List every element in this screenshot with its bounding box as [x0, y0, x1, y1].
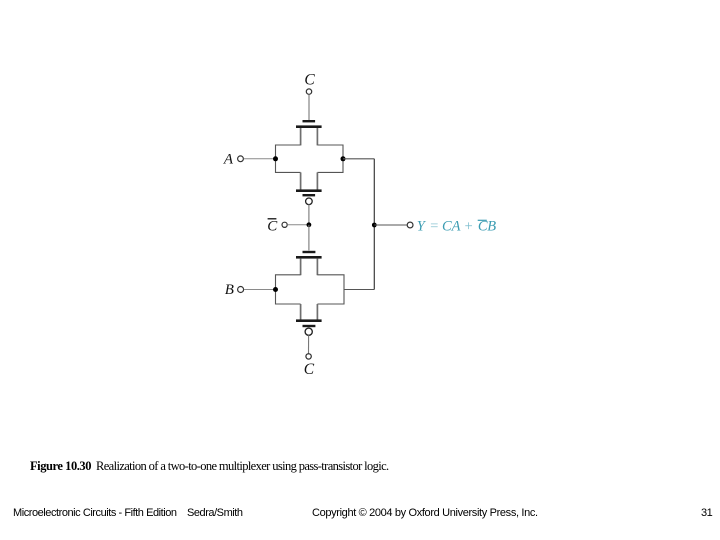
svg-text:=: =: [429, 219, 439, 235]
junction dot top TG output: [341, 156, 346, 161]
transistor Q1 NMOS of top transmission gate: [296, 120, 322, 145]
svg-text:CA: CA: [442, 219, 461, 235]
wire C-bar junction to Q3 gate: [308, 225, 310, 251]
transistor Q2 PMOS of top transmission gate: [296, 172, 322, 204]
wire Y output: [374, 224, 407, 226]
wire C-bar input: [287, 224, 309, 226]
svg-text:Y: Y: [417, 219, 427, 235]
wire B input: [244, 289, 276, 291]
junction dot B at bottom TG input: [273, 287, 278, 292]
terminal C top: [306, 89, 311, 94]
svg-text:A: A: [223, 152, 234, 168]
wire bottom TG output to Y bus: [344, 289, 374, 291]
transistor Q4 PMOS of bottom transmission gate: [296, 304, 322, 335]
node B label: [225, 282, 234, 298]
wire Q2 bubble to C-bar node: [308, 204, 310, 224]
wire A input: [244, 158, 276, 160]
wire top transmission gate frame: [276, 145, 344, 172]
terminal C-bar: [282, 222, 287, 227]
node C-bar label: [267, 218, 278, 234]
wire C top to Q1 gate: [308, 95, 310, 121]
junction dot A at top TG input: [273, 156, 278, 161]
node A label: [223, 152, 234, 168]
svg-text:+: +: [464, 219, 474, 235]
label Y = CA + C-bar B output expression: [417, 219, 496, 235]
terminal Y: [407, 222, 413, 228]
junction dot Y: [372, 223, 377, 228]
svg-text:C: C: [304, 72, 315, 89]
junction dot C-bar: [307, 222, 312, 227]
wire Y bus vertical: [373, 159, 375, 290]
footer left: book title and authors: [13, 507, 243, 519]
node C bottom label: [304, 361, 315, 378]
svg-text:B: B: [487, 219, 496, 235]
terminal C bottom: [306, 354, 311, 359]
terminal A: [238, 156, 244, 162]
svg-text:C: C: [267, 218, 278, 234]
transistor Q3 NMOS of bottom transmission gate: [296, 251, 322, 275]
figure caption: [30, 459, 389, 474]
svg-text:C: C: [304, 361, 315, 378]
wire top TG output to Y bus: [343, 158, 374, 160]
footer center: copyright: [312, 507, 538, 519]
wire bottom transmission gate frame: [276, 275, 345, 304]
node C top label: [304, 72, 315, 89]
terminal B: [238, 287, 244, 293]
footer right: page number: [701, 507, 712, 519]
svg-text:B: B: [225, 282, 234, 298]
wire Q4 bubble to C bottom terminal: [308, 335, 310, 353]
